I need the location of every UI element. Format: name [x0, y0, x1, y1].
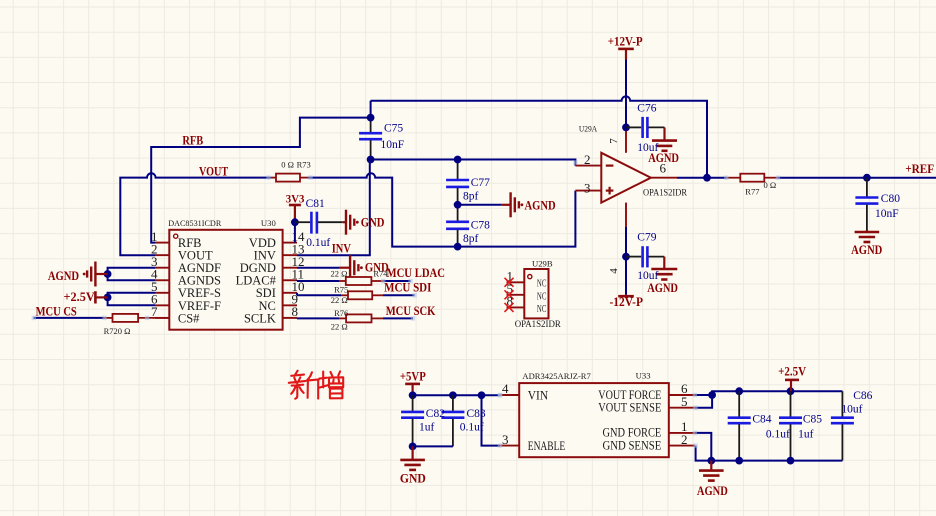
svg-text:-12V-P: -12V-P — [609, 295, 643, 309]
svg-text:VIN: VIN — [528, 389, 548, 403]
svg-text:C86: C86 — [853, 390, 872, 402]
svg-text:U30: U30 — [261, 218, 276, 228]
svg-text:NC: NC — [537, 303, 547, 315]
svg-text:CS#: CS# — [178, 311, 200, 325]
svg-text:10nF: 10nF — [381, 139, 405, 151]
svg-text:VOUT SENSE: VOUT SENSE — [598, 401, 661, 415]
svg-text:OPA1S2IDR: OPA1S2IDR — [643, 187, 687, 197]
svg-text:0.1uf: 0.1uf — [766, 429, 790, 441]
svg-text:+2.5V: +2.5V — [64, 290, 95, 304]
svg-text:8pf: 8pf — [463, 191, 479, 203]
svg-text:U29A: U29A — [579, 124, 598, 134]
svg-text:10nF: 10nF — [875, 208, 899, 220]
svg-text:1uf: 1uf — [798, 429, 814, 441]
svg-text:U33: U33 — [636, 370, 651, 380]
svg-text:+12V-P: +12V-P — [608, 35, 643, 49]
svg-text:3V3: 3V3 — [286, 193, 305, 205]
svg-text:4: 4 — [608, 268, 620, 274]
svg-text:C85: C85 — [803, 414, 822, 426]
svg-text:R720 Ω: R720 Ω — [104, 326, 131, 336]
svg-text:U29B: U29B — [532, 259, 553, 269]
svg-text:MCU LDAC: MCU LDAC — [387, 266, 446, 280]
svg-text:INV: INV — [332, 242, 351, 256]
svg-text:NC: NC — [537, 290, 547, 302]
svg-text:3: 3 — [502, 432, 509, 447]
svg-text:AGND: AGND — [647, 281, 678, 295]
svg-text:R73: R73 — [297, 160, 311, 170]
svg-text:+5VP: +5VP — [400, 369, 426, 383]
svg-text:GND: GND — [400, 471, 426, 485]
svg-text:R76: R76 — [334, 308, 348, 318]
svg-text:0.1uf: 0.1uf — [460, 421, 484, 433]
svg-text:VOUT: VOUT — [199, 165, 229, 179]
svg-text:+2.5V: +2.5V — [778, 365, 806, 379]
svg-text:MCU CS: MCU CS — [36, 305, 77, 319]
svg-text:4: 4 — [502, 381, 509, 396]
svg-text:7: 7 — [151, 304, 158, 319]
svg-text:22 Ω: 22 Ω — [331, 295, 348, 305]
svg-text:5: 5 — [681, 394, 688, 409]
svg-text:C75: C75 — [384, 123, 403, 135]
svg-text:NC: NC — [537, 278, 547, 290]
svg-text:DAC8531ICDR: DAC8531ICDR — [168, 218, 221, 228]
svg-text:C80: C80 — [881, 193, 900, 205]
svg-text:C77: C77 — [471, 177, 490, 189]
svg-text:AGND: AGND — [697, 484, 728, 498]
svg-text:0.1uf: 0.1uf — [306, 237, 330, 249]
svg-text:R75: R75 — [334, 285, 348, 295]
svg-text:0 Ω: 0 Ω — [281, 160, 294, 170]
svg-text:AGND: AGND — [525, 198, 556, 212]
svg-text:OPA1S2IDR: OPA1S2IDR — [515, 319, 561, 329]
svg-text:C83: C83 — [467, 408, 486, 420]
svg-text:C81: C81 — [306, 198, 325, 210]
svg-text:C78: C78 — [471, 219, 490, 231]
svg-text:22 Ω: 22 Ω — [331, 268, 348, 278]
svg-text:22 Ω: 22 Ω — [331, 321, 348, 331]
svg-text:C82: C82 — [426, 408, 445, 420]
svg-text:8: 8 — [292, 304, 299, 319]
svg-text:GND SENSE: GND SENSE — [603, 438, 662, 452]
svg-text:RFB: RFB — [182, 133, 203, 147]
svg-text:MCU SCK: MCU SCK — [386, 304, 436, 318]
svg-text:C76: C76 — [637, 103, 656, 115]
svg-text:ADR3425ARJZ-R7: ADR3425ARJZ-R7 — [522, 371, 590, 381]
svg-text:8pf: 8pf — [463, 233, 479, 245]
svg-text:AGND: AGND — [48, 269, 79, 283]
svg-text:SCLK: SCLK — [244, 311, 276, 325]
svg-text:7: 7 — [608, 138, 620, 144]
svg-text:1uf: 1uf — [419, 421, 435, 433]
svg-text:GND: GND — [361, 215, 385, 229]
svg-text:2: 2 — [681, 432, 688, 447]
svg-text:C79: C79 — [637, 232, 656, 244]
svg-text:C84: C84 — [752, 414, 771, 426]
svg-text:ENABLE: ENABLE — [528, 439, 566, 453]
svg-text:0 Ω: 0 Ω — [764, 180, 777, 190]
svg-text:R77: R77 — [745, 187, 759, 197]
svg-text:2: 2 — [584, 152, 591, 167]
svg-text:6: 6 — [660, 161, 667, 176]
svg-text:3: 3 — [584, 180, 591, 195]
svg-text:+REF: +REF — [905, 162, 934, 176]
svg-text:MCU SDI: MCU SDI — [384, 281, 431, 295]
svg-text:10uf: 10uf — [841, 403, 862, 415]
svg-text:AGND: AGND — [851, 243, 882, 257]
